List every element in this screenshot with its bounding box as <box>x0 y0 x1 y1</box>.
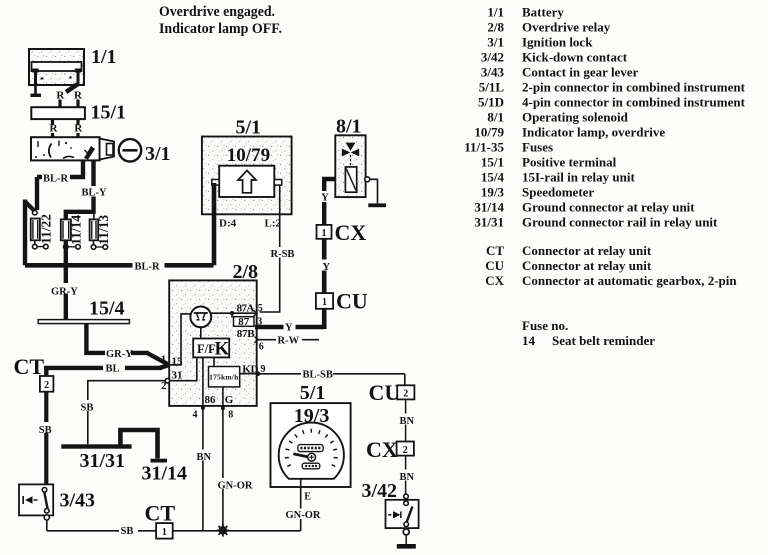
wire SB from relay pin 2 to 31/31 rail <box>88 381 166 445</box>
svg-text:87B: 87B <box>237 328 255 340</box>
svg-text:G: G <box>225 394 234 406</box>
svg-text:2/8: 2/8 <box>487 20 504 35</box>
wire SB from CT2 to 3/43 <box>44 392 48 489</box>
svg-text:11/14: 11/14 <box>69 215 84 245</box>
svg-text:31: 31 <box>172 370 183 382</box>
svg-text:8: 8 <box>228 410 233 421</box>
solenoid coil <box>345 167 356 192</box>
wire to ground point <box>173 530 301 532</box>
svg-text:SB: SB <box>39 425 52 436</box>
svg-text:CU: CU <box>336 289 368 314</box>
wire R (15/1 to ignition, right) <box>76 119 79 124</box>
svg-text:Y: Y <box>321 193 329 204</box>
svg-text:31/31: 31/31 <box>474 215 504 230</box>
svg-text:BL: BL <box>106 364 120 375</box>
wire pin1/15 to transistor <box>169 314 190 365</box>
battery negative terminal <box>32 69 38 73</box>
wire BN CU2 to CX2 <box>405 399 407 441</box>
contact in gear lever 3/43 <box>19 484 53 515</box>
svg-text:31/14: 31/14 <box>474 200 504 215</box>
fuse 11/22 top terminal <box>33 210 38 215</box>
svg-text:D:4: D:4 <box>219 217 237 229</box>
svg-text:3/43: 3/43 <box>481 65 505 80</box>
wire BL-R bus <box>25 263 214 268</box>
svg-text:19/3: 19/3 <box>481 185 505 200</box>
wire Y CX1 up to solenoid 8/1 <box>324 179 335 225</box>
wire GN-OR from relay pin 8 to ground point <box>222 408 224 526</box>
svg-text:87: 87 <box>238 316 250 328</box>
svg-text:Y: Y <box>323 262 331 273</box>
svg-text:CX: CX <box>366 437 398 462</box>
svg-text:4: 4 <box>193 410 198 421</box>
rail 15/4 <box>38 320 129 324</box>
wire pin2 to F/FK <box>170 357 197 380</box>
svg-text:15/1: 15/1 <box>91 102 127 124</box>
positive terminal 15/1 <box>31 107 85 119</box>
lamp arrow symbol <box>238 171 256 193</box>
svg-text:15/4: 15/4 <box>89 298 125 320</box>
speedometer tick marks <box>287 465 291 467</box>
svg-text:5/1D: 5/1D <box>478 95 504 110</box>
wire BL from CT to relay pin 1 <box>44 366 162 370</box>
svg-text:8/1: 8/1 <box>487 110 504 125</box>
svg-text:GN-OR: GN-OR <box>218 480 253 491</box>
svg-text:Operating solenoid: Operating solenoid <box>522 110 629 125</box>
svg-text:R-W: R-W <box>278 336 300 347</box>
svg-text:1/1: 1/1 <box>487 5 504 20</box>
svg-text:5/1L: 5/1L <box>479 80 505 95</box>
svg-text:BL-R: BL-R <box>135 262 161 273</box>
svg-text:3/1: 3/1 <box>145 143 171 165</box>
svg-text:CX: CX <box>485 273 504 288</box>
wire bypass diagonal to BL-R bus <box>25 202 34 211</box>
svg-text:1/1: 1/1 <box>91 46 117 68</box>
svg-text:31/31: 31/31 <box>80 450 126 472</box>
svg-text:GN-OR: GN-OR <box>286 510 321 521</box>
3/42 actuation arrow <box>388 514 392 516</box>
svg-text:Speedometer: Speedometer <box>522 185 594 200</box>
svg-text:Contact in gear lever: Contact in gear lever <box>522 65 639 80</box>
solenoid ground terminal <box>365 177 370 182</box>
svg-text:15I-rail in relay unit: 15I-rail in relay unit <box>522 170 635 185</box>
svg-text:R: R <box>50 123 59 135</box>
wire F/FK to pin 4/86 <box>202 357 204 406</box>
svg-text:GR-Y: GR-Y <box>106 349 133 360</box>
svg-text:5/1: 5/1 <box>300 382 326 404</box>
ground point (starburst) <box>220 527 227 534</box>
wire GR-Y fuse 11/14 down to 15/4 rail <box>64 240 68 319</box>
connector CU (1) <box>316 293 333 309</box>
svg-text:Kick-down contact: Kick-down contact <box>522 50 628 65</box>
svg-text:F/F: F/F <box>197 342 216 356</box>
logic box F/FK <box>193 339 229 358</box>
svg-text:Connector at relay unit: Connector at relay unit <box>522 243 652 258</box>
svg-text:K: K <box>215 339 230 360</box>
svg-text:BN: BN <box>400 416 415 427</box>
svg-text:BN: BN <box>197 452 212 463</box>
wire GN-OR from speedometer pin E <box>300 479 302 531</box>
ground at battery <box>34 85 37 95</box>
svg-text:15/4: 15/4 <box>481 170 505 185</box>
svg-text:R: R <box>56 90 65 102</box>
svg-text:Positive terminal: Positive terminal <box>522 155 617 170</box>
relay pin 6 <box>255 337 259 343</box>
odometer <box>298 445 323 452</box>
trip odometer <box>302 463 320 469</box>
svg-text:BL-R: BL-R <box>43 174 69 185</box>
svg-text:1: 1 <box>162 527 167 538</box>
svg-text:Ignition lock: Ignition lock <box>522 35 593 50</box>
svg-text:10/79: 10/79 <box>227 145 270 166</box>
3/42 switch blade <box>406 507 412 524</box>
svg-text:Indicator lamp, overdrive: Indicator lamp, overdrive <box>522 125 665 140</box>
svg-text:CX: CX <box>335 220 367 245</box>
svg-text:86: 86 <box>205 394 217 406</box>
battery 1/1 <box>29 49 84 85</box>
wire BL-R from ignition to fuse 11/22 <box>37 160 83 177</box>
wire KD to pin 9 <box>240 373 258 375</box>
svg-text:Connector at relay unit: Connector at relay unit <box>522 258 652 273</box>
svg-text:Ground connector rail in relay: Ground connector rail in relay unit <box>522 215 718 230</box>
wire to fuse 11/13 <box>93 214 95 220</box>
svg-text:2-pin connector in combined in: 2-pin connector in combined instrument <box>522 80 746 95</box>
speed threshold box 175km/h <box>209 367 240 387</box>
svg-text:5/1: 5/1 <box>236 117 262 139</box>
wire BN CX2 to 3/42 <box>405 456 407 494</box>
svg-text:Overdrive relay: Overdrive relay <box>522 20 611 35</box>
ground at 3/42 <box>397 544 416 549</box>
svg-text:E: E <box>304 492 311 503</box>
svg-text:Overdrive engaged.: Overdrive engaged. <box>159 4 275 20</box>
relay pin 2 <box>165 379 169 383</box>
battery positive terminal <box>75 69 81 73</box>
ignition key head <box>119 139 141 161</box>
svg-text:2: 2 <box>403 389 408 400</box>
svg-text:3/42: 3/42 <box>481 50 504 65</box>
connector housing 5/1 (combined instrument, bottom) <box>271 403 351 487</box>
ground connector 31/14 <box>120 430 157 459</box>
transistor inside 2/8 <box>190 307 211 328</box>
fuse 11/13 <box>90 219 99 240</box>
speedometer needle <box>293 454 308 457</box>
wire BL-Y from ignition to fuses <box>66 160 94 219</box>
svg-text:BN: BN <box>400 472 415 483</box>
wire Y from relay pin 3 to CX1 <box>255 325 324 330</box>
svg-text:R: R <box>74 90 83 102</box>
operating solenoid 8/1 <box>335 135 365 197</box>
svg-text:87A: 87A <box>237 303 255 315</box>
svg-text:Ground connector at relay unit: Ground connector at relay unit <box>522 200 695 215</box>
svg-text:2/8: 2/8 <box>233 261 259 283</box>
lamp right tab <box>274 180 281 186</box>
wire BL-SB from relay pin 9 to CU2 <box>260 373 405 375</box>
svg-text:BL-Y: BL-Y <box>82 188 108 199</box>
svg-text:Indicator lamp OFF.: Indicator lamp OFF. <box>159 21 282 37</box>
svg-text:1: 1 <box>322 297 327 308</box>
fuse 11/22 <box>31 219 40 241</box>
svg-text:15: 15 <box>172 356 184 368</box>
ignition lock 3/1 <box>31 137 100 160</box>
wire GR-Y from 15/4 to relay pin 1 <box>86 324 148 353</box>
svg-text:Connector at automatic gearbox: Connector at automatic gearbox, 2-pin <box>522 273 737 288</box>
svg-text:1: 1 <box>161 354 167 366</box>
svg-text:GR-Y: GR-Y <box>51 287 78 298</box>
wire Y CX1 to CU1 <box>322 239 327 293</box>
connector CX (1) <box>317 225 332 239</box>
svg-text:31/14: 31/14 <box>142 463 188 485</box>
fuse 11/22 bottom terminals <box>34 240 36 244</box>
wire to ground <box>405 535 407 544</box>
solenoid valve symbol <box>346 143 356 151</box>
wire R-SB lamp right lead to relay pin 5 <box>260 185 280 312</box>
svg-text:175km/h: 175km/h <box>209 373 239 382</box>
connector housing 5/1 (combined instrument, top) <box>202 137 292 215</box>
contact 87 box <box>231 313 233 317</box>
svg-text:4-pin connector in combined in: 4-pin connector in combined instrument <box>522 95 746 110</box>
svg-text:11/1-35: 11/1-35 <box>464 140 504 155</box>
3/43 actuation arrow <box>22 496 24 504</box>
svg-text:Fuse no.: Fuse no. <box>522 318 568 333</box>
ground rail 31/31 <box>61 444 131 448</box>
svg-text:Battery: Battery <box>522 5 564 20</box>
svg-text:Y: Y <box>285 323 293 334</box>
svg-text:R: R <box>74 123 83 135</box>
svg-text:14: 14 <box>522 333 536 348</box>
wire BL-R lamp left lead <box>212 183 217 265</box>
svg-text:Fuses: Fuses <box>522 140 553 155</box>
svg-text:15/1: 15/1 <box>481 155 504 170</box>
ignition lock cylinder <box>100 139 114 160</box>
svg-text:11/22: 11/22 <box>39 214 54 244</box>
wire R (battery to 15/1, left) <box>58 100 61 108</box>
svg-text:10/79: 10/79 <box>474 125 504 140</box>
wire from 3/43 down <box>46 520 48 531</box>
svg-text:2: 2 <box>44 380 49 391</box>
fuse 11/14 <box>61 219 71 240</box>
svg-text:CU: CU <box>369 380 401 405</box>
svg-text:11/13: 11/13 <box>96 215 111 245</box>
wire R (15/1 to ignition, left) <box>51 119 54 124</box>
svg-text:CU: CU <box>485 258 504 273</box>
svg-text:CT: CT <box>145 501 176 526</box>
wire transistor to F/FK <box>200 327 202 338</box>
wire SB bottom run <box>47 530 156 532</box>
wire R (battery to 15/1, right) <box>76 100 79 108</box>
wire speed box to pin 8/G <box>222 387 224 406</box>
svg-text:2: 2 <box>403 445 408 456</box>
svg-text:3/1: 3/1 <box>487 35 504 50</box>
lamp left tab <box>212 180 219 186</box>
svg-text:1: 1 <box>322 228 327 239</box>
svg-text:6: 6 <box>259 342 264 353</box>
wire R-W from pin 6 <box>259 339 320 341</box>
fuse 11/14 bottom terminals <box>64 245 69 250</box>
svg-text:3/42: 3/42 <box>362 480 398 502</box>
overdrive relay 2/8 <box>169 280 257 406</box>
wire F/FK to speed box <box>213 357 215 366</box>
wire transistor to pin 5/87A <box>211 312 255 314</box>
svg-text:BL-SB: BL-SB <box>303 370 333 381</box>
svg-text:8/1: 8/1 <box>336 116 362 138</box>
wire stub from battery positive <box>66 84 78 92</box>
fuse 11/13 bottom terminals <box>93 240 95 244</box>
svg-text:3/43: 3/43 <box>60 490 96 512</box>
svg-text:2: 2 <box>161 380 167 392</box>
wire BN from relay pin 4 <box>202 408 204 531</box>
svg-text:SB: SB <box>81 403 94 414</box>
ignition key symbol <box>84 146 95 160</box>
svg-text:R-SB: R-SB <box>271 249 295 260</box>
svg-text:Seat belt reminder: Seat belt reminder <box>552 333 655 348</box>
svg-text:SB: SB <box>121 526 134 537</box>
svg-text:CT: CT <box>486 243 504 258</box>
ground at solenoid <box>368 203 386 207</box>
